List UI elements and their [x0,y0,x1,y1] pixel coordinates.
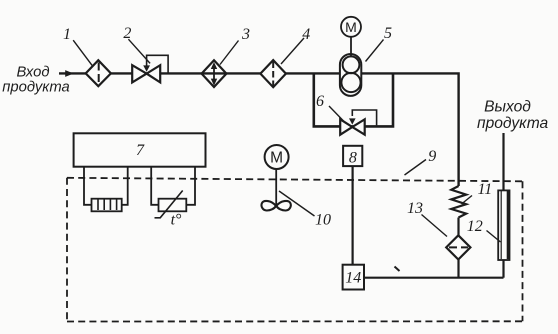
svg-text:9: 9 [428,148,436,165]
heater hatching [97,200,99,211]
dashed thermostat enclosure bottom [67,320,523,322]
svg-text:14: 14 [345,270,361,287]
leader line 1 [73,40,92,66]
svg-text:4: 4 [302,26,310,43]
filter F4 inner dashed line [272,62,274,87]
stirrer motor M [265,145,289,169]
svg-text:Вход: Вход [16,65,49,81]
dashed thermostat enclosure top [67,178,523,182]
leader line 4 [281,38,304,64]
inlet flow arrowhead [65,70,73,77]
wire: bottom horizontal from box 14 [364,277,504,279]
leader line 10 [279,191,315,216]
filter F4 (diamond 4) [260,60,286,87]
wire: valve 6 feedback loop [352,110,376,125]
svg-text:t°: t° [171,212,182,229]
leader line 3 [220,41,239,65]
svg-text:2: 2 [123,25,131,42]
temperature sensor box [159,199,187,212]
dashed thermostat enclosure right [522,181,524,321]
arrow into valve 2 [143,65,150,71]
restrictor 11 (zigzag) [451,186,466,218]
filter F1 (diamond 1) [86,60,111,86]
svg-text:M: M [345,19,357,35]
svg-text:6: 6 [316,93,324,110]
svg-text:11: 11 [477,181,492,198]
arrow into valve 6 [349,118,356,124]
wire: filter 13 to bottom line [457,260,459,278]
tick mark artifact [395,267,400,272]
filter 13 inner dashed line [449,246,468,248]
wire: box 8 to box 14 [352,165,354,266]
stirrer impeller [261,201,276,211]
wire: valve 2 feedback loop [147,55,169,72]
svg-text:7: 7 [136,142,145,159]
pump P5 bottom gear circle [341,73,360,92]
svg-text:1: 1 [63,26,71,43]
leader line 6 [329,106,344,122]
svg-text:продукта: продукта [2,79,70,95]
dashed thermostat enclosure left [66,178,68,322]
wire: heater left leg [84,167,92,205]
svg-text:8: 8 [349,149,357,166]
wire: heater right leg [122,167,128,205]
wire: zigzag to filter 13 [457,218,459,237]
leader line 11 [462,196,473,205]
filter F1 inner dashed line [98,63,100,84]
svg-text:M: M [270,150,283,167]
svg-text:10: 10 [315,211,331,228]
valve V2 (bowtie) [132,65,146,82]
leader line 5 [366,40,384,62]
svg-text:13: 13 [407,200,423,217]
leader line 13 [422,215,448,237]
meter 3 vertical double arrow [213,66,215,82]
svg-text:12: 12 [467,218,483,235]
thermostat block 7 [74,133,206,166]
wire: sensor left leg [151,167,158,205]
meter 3 (diamond with double arrow) [202,60,227,87]
wire: main horizontal line with right-hand downturn [59,73,459,186]
wire: pump bypass loop [314,73,393,126]
measuring cell 12 (tall rectangle) [498,190,509,260]
valve V6 (bowtie on bypass) [340,119,352,134]
controller box 14 [343,265,364,290]
wire: product outlet down pipe [502,133,504,191]
wire: cell 12 bottom stub [502,260,504,278]
controller box 8 [343,146,362,166]
pump P5 capsule [340,54,361,96]
svg-text:5: 5 [384,25,392,42]
wire: motor to pump link [350,37,352,56]
leader line 2 [128,39,150,63]
filter 13 (diamond) [446,235,470,259]
measuring cell 12 inner left wall [500,191,502,259]
motor M of pump [341,17,361,37]
wire: sensor right leg [186,167,195,205]
wire: stirrer shaft [275,169,277,206]
measuring cell 12 thick right wall [507,191,510,259]
svg-text:3: 3 [241,26,250,43]
pump P5 top gear circle [343,56,360,73]
svg-text:продукта: продукта [477,115,549,132]
leader line 9 [405,160,427,176]
heater element (hatched box) [92,199,122,212]
temperature sensor diagonal stroke [155,191,183,218]
leader line 12 [487,231,501,243]
svg-text:Выход: Выход [484,99,531,116]
